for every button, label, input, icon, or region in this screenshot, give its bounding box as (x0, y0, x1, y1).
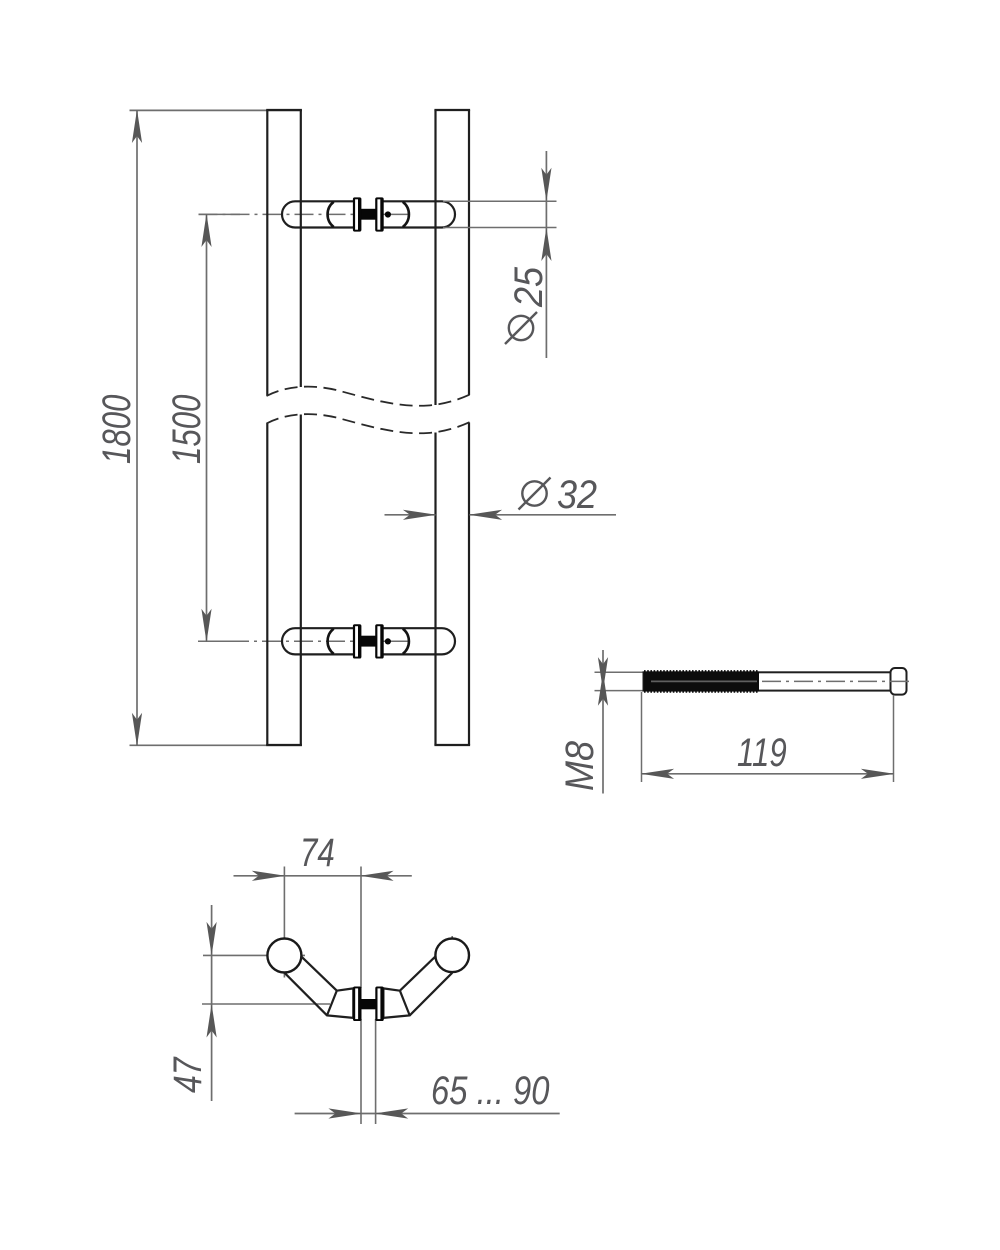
right tube inner edge (lower segment) (434, 433, 436, 746)
left bend trapezoid (327, 988, 353, 1018)
svg-text:M8: M8 (558, 741, 602, 791)
bolt bar (bottom view) (361, 999, 377, 1009)
right tube outer edge (upper segment) (468, 110, 470, 395)
arrow 65-90 left (tip at axis, pointing right) (328, 1108, 362, 1118)
label 1500 (164, 395, 209, 464)
bolt tip dot (top connector) (385, 211, 391, 217)
diameter symbol of Ø32 (522, 481, 546, 505)
left circle crosshair horizontal / 47 top extension (203, 954, 305, 956)
white gap between flanges (bottom connector) (361, 625, 376, 657)
dimension line Ø32 right part (470, 514, 617, 516)
center axis vertical line (360, 867, 362, 1125)
bottom connector left bend arc (328, 629, 334, 654)
bolt centerline (solid over thread) (651, 680, 757, 682)
svg-text:47: 47 (165, 1056, 210, 1093)
right flange (bottom connector) (375, 624, 384, 658)
dimension line 65...90 (295, 1113, 560, 1115)
dimension line 1500 (206, 214, 208, 641)
dimension line Ø25 (545, 151, 547, 358)
top connector left bend arc (328, 202, 334, 227)
label 1800 (94, 395, 139, 464)
door face vertical line (375, 1019, 377, 1124)
svg-text:1800: 1800 (94, 395, 139, 464)
svg-text:65 ... 90: 65 ... 90 (431, 1068, 550, 1113)
right flange (top connector) (375, 197, 384, 231)
bolt centerline (dash-dot) (762, 680, 911, 682)
M8 arrow (tip at top line, pointing up) (598, 672, 608, 706)
right arm lower edge (410, 973, 452, 1016)
M8 extension line top (595, 671, 646, 673)
left tube bottom edge (266, 744, 302, 746)
M8 arrow (tip at bottom line, pointing down) (598, 657, 608, 691)
white gap between flanges (bottom view) (361, 988, 376, 1019)
dimension line Ø32 left part (385, 514, 436, 516)
arrow Ø32 right (pointing left) (469, 510, 503, 520)
arrow 1500 top (201, 214, 211, 248)
M8 dimension line (602, 650, 604, 794)
left arm lower edge (285, 973, 327, 1016)
bolt bar (bottom connector) (360, 636, 376, 647)
arrow 74 left (tip at left ext, tail outside) (252, 871, 285, 881)
centerline of bottom connector / 1500 extension (198, 640, 411, 642)
arrow Ø25 lower (pointing up) (541, 228, 551, 262)
left circle crosshair vertical (283, 867, 285, 978)
right tube inner edge (upper segment) (434, 110, 436, 405)
left arm upper edge (301, 956, 338, 992)
right arm upper edge (399, 956, 436, 992)
right bend trapezoid (383, 988, 409, 1018)
arrow 74 right (tip at axis, tail outside) (360, 871, 394, 881)
svg-text:32: 32 (557, 473, 597, 517)
left flange (top connector) (353, 197, 362, 231)
wire: bottom extension line for 1800 (130, 744, 303, 746)
right tube bottom edge (434, 744, 470, 746)
left tube outer edge (lower segment) (266, 423, 268, 745)
bolt shaft outline (644, 672, 893, 690)
wire: top extension line for 1800 (130, 109, 303, 111)
bolt thread serration top (644, 670, 759, 672)
svg-text:25: 25 (507, 266, 551, 308)
arrow 65-90 right (tip at face line, pointing left) (375, 1108, 409, 1118)
arrow 47 top (pointing down, tail above) (207, 922, 217, 956)
right tube section circle (435, 939, 469, 973)
bottom connector right bend arc (403, 629, 409, 654)
extension line Ø25 bottom (443, 227, 557, 229)
label Ø25 (507, 266, 551, 308)
arrow 119 left (641, 769, 675, 779)
arrow 1800 bottom (132, 713, 142, 747)
right circle crosshair vertical (451, 936, 453, 974)
diameter symbol of Ø25 (509, 316, 533, 340)
arrow 1800 top (132, 110, 142, 144)
bolt thread serration bottom (644, 691, 759, 693)
label 47 (165, 1056, 210, 1093)
svg-text:119: 119 (737, 730, 787, 775)
svg-text:74: 74 (300, 830, 335, 875)
label M8 (558, 741, 602, 791)
dimension line 47 (211, 905, 213, 1101)
arrow 119 right (861, 769, 895, 779)
left tube outer edge (upper segment) (266, 110, 268, 396)
bolt head (891, 668, 907, 695)
bolt tip dot (bottom connector) (385, 638, 391, 644)
left flange (bottom connector) (353, 624, 362, 658)
white gap between flanges (top connector) (361, 199, 376, 231)
centerline of top connector / 1500 extension (199, 213, 412, 215)
dimension line 1800 (136, 110, 138, 745)
arrow 1500 bottom (201, 609, 211, 643)
119 dimension line (642, 773, 894, 775)
dimension line 74 (234, 875, 412, 877)
left tube inner edge (lower segment) (300, 415, 302, 746)
left tube top edge (266, 109, 302, 111)
svg-text:1500: 1500 (164, 395, 209, 464)
right flange (bottom view) (375, 987, 384, 1022)
top connector right bend arc (403, 202, 409, 227)
right circle crosshair horizontal (436, 954, 470, 956)
top connector capsule body (282, 201, 455, 227)
right tube outer edge (lower segment) (468, 423, 470, 746)
M8 extension line bottom (595, 690, 646, 692)
119 extension line left (641, 692, 643, 782)
47 bottom extension line (202, 1003, 330, 1005)
break wave lower (267, 414, 471, 433)
break wave upper (267, 387, 471, 406)
arrow 47 bottom (pointing up, tail below) (207, 1004, 217, 1038)
bolt bar (top connector) (360, 209, 376, 220)
extension line Ø25 top (443, 200, 557, 202)
arrow Ø32 left (pointing right) (403, 510, 437, 520)
arrow Ø25 upper (pointing down) (541, 168, 551, 202)
bottom connector capsule body (282, 628, 455, 654)
left tube inner edge (upper segment) (300, 110, 302, 387)
left flange (bottom view) (353, 987, 362, 1022)
119 extension line right (893, 695, 895, 782)
right tube top edge (434, 109, 470, 111)
bolt threaded part (644, 672, 760, 692)
left tube section circle (267, 939, 301, 973)
